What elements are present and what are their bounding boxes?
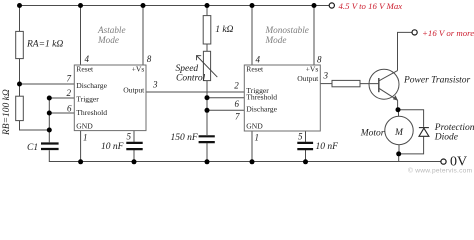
junction top rail / 1k branch	[205, 3, 210, 8]
junction rail / 10nF-1	[132, 159, 137, 164]
svg-text:Speed: Speed	[176, 64, 199, 74]
motor M1	[385, 116, 413, 144]
svg-text:5: 5	[298, 132, 303, 142]
svg-text:5: 5	[127, 132, 132, 142]
wire RA to RB	[19, 59, 21, 97]
svg-text:+16 V or more: +16 V or more	[422, 28, 474, 38]
svg-text:10 nF: 10 nF	[316, 142, 339, 152]
svg-text:Astable: Astable	[97, 25, 126, 35]
svg-text:150 nF: 150 nF	[171, 133, 198, 143]
wire top rail	[19, 5, 329, 7]
svg-text:+Vs: +Vs	[132, 65, 145, 74]
wire IC1 pin8	[142, 6, 144, 66]
IC U1 555 timer (astable) body	[74, 65, 146, 131]
wire IC1 pin5	[133, 131, 135, 142]
svg-text:Motor: Motor	[360, 129, 385, 139]
svg-text:Output: Output	[123, 85, 145, 94]
transistor Q1 power transistor (NPN)	[369, 69, 399, 100]
svg-text:1 kΩ: 1 kΩ	[215, 25, 233, 35]
svg-text:Monostable: Monostable	[265, 25, 309, 35]
svg-text:Threshold: Threshold	[246, 93, 277, 102]
junction emitter node	[396, 107, 401, 112]
svg-text:1: 1	[255, 133, 260, 143]
junction rail / 10nF-2	[303, 159, 308, 164]
svg-text:8: 8	[317, 55, 322, 65]
junction top rail / RA branch	[17, 3, 22, 8]
terminal 0V	[441, 159, 446, 164]
wire IC2 pin7	[207, 109, 244, 111]
junction rail / IC2 pin 1	[250, 159, 255, 164]
terminal +16V	[412, 30, 417, 35]
wire IC2 pin8	[313, 6, 315, 66]
wire cap10nF-1 to rail	[133, 150, 135, 162]
wire C1 top	[48, 130, 50, 142]
junction top rail / IC1 pin 8	[141, 3, 146, 8]
svg-text:C1: C1	[27, 143, 38, 153]
svg-text:7: 7	[67, 74, 72, 84]
svg-text:6: 6	[67, 104, 72, 114]
capacitor C1	[41, 144, 59, 150]
wire IC1 pin4	[80, 6, 82, 66]
svg-text:10 nF: 10 nF	[101, 142, 124, 152]
wire cap10nF-2 to rail	[305, 150, 307, 162]
IC U2 555 timer (monostable) body	[244, 65, 320, 131]
svg-text:2: 2	[234, 81, 239, 91]
junction RA-RB / IC1 discharge	[17, 82, 22, 87]
wire collector up	[398, 32, 412, 70]
svg-text:RB=100 kΩ: RB=100 kΩ	[2, 89, 12, 136]
wire motor bottom	[398, 145, 400, 154]
svg-text:RA=1 kΩ: RA=1 kΩ	[26, 40, 63, 50]
svg-text:3: 3	[323, 71, 329, 81]
svg-text:Reset: Reset	[246, 65, 264, 74]
svg-text:GND: GND	[76, 121, 93, 130]
resistor RB	[16, 96, 24, 120]
junction RB bottom / C1 top	[47, 128, 52, 133]
svg-text:7: 7	[235, 112, 240, 122]
potentiometer speed control	[203, 51, 210, 80]
wire IC2 pin1	[251, 131, 253, 162]
wire motor node to rail	[398, 154, 400, 162]
junction pot / IC2 threshold	[205, 95, 210, 100]
svg-text:Power Transistor: Power Transistor	[403, 76, 471, 86]
wire diode bottom	[399, 137, 424, 154]
svg-text:4: 4	[85, 54, 90, 64]
wire 1k top	[206, 6, 208, 16]
capacitor 10nF IC1	[126, 143, 142, 149]
svg-text:4: 4	[256, 55, 261, 65]
wire IC1 pin1	[80, 131, 82, 162]
svg-text:Reset: Reset	[76, 65, 94, 74]
svg-text:Threshold: Threshold	[76, 108, 107, 117]
junction top rail / IC1 pin 4	[78, 3, 83, 8]
wire emitter down to node	[397, 100, 399, 110]
wire cap150nF to rail	[206, 143, 208, 161]
junction IC1 threshold	[47, 111, 52, 116]
wire pin6 IC1	[49, 112, 74, 114]
svg-text:Diode: Diode	[434, 132, 458, 142]
junction motor bottom / diode	[396, 151, 401, 156]
junction rail / IC1 pin 1	[78, 159, 83, 164]
svg-text:GND: GND	[246, 121, 263, 130]
svg-text:© www.petervis.com: © www.petervis.com	[408, 167, 473, 175]
wire IC2 pin5	[305, 131, 307, 142]
wire base	[360, 83, 379, 85]
svg-text:4.5 V to 16 V Max: 4.5 V to 16 V Max	[339, 1, 403, 11]
wire pin2 IC1	[49, 97, 74, 99]
wire IC2 output	[320, 83, 332, 85]
wire trig-thresh vertical	[48, 98, 50, 130]
junction IC1 trigger	[47, 96, 52, 101]
svg-text:+Vs: +Vs	[306, 65, 319, 74]
svg-text:Trigger: Trigger	[76, 95, 99, 104]
terminal +V top	[329, 3, 334, 8]
svg-text:1: 1	[83, 133, 88, 143]
wire IC1 output to IC2 trigger	[146, 91, 244, 93]
junction top rail / IC2 pin 8	[312, 3, 317, 8]
pot wiper arrow	[197, 56, 218, 78]
svg-text:Discharge: Discharge	[76, 81, 107, 90]
capacitor 10nF IC2	[297, 143, 313, 149]
svg-text:Control: Control	[176, 74, 206, 84]
junction pot / IC2 discharge	[205, 108, 210, 113]
wire IC2 pin4	[251, 6, 253, 66]
resistor base (IC2 output to Q1 base)	[332, 80, 360, 86]
diode D1	[419, 128, 429, 137]
svg-text:Discharge: Discharge	[246, 105, 277, 114]
wire left branch vertical	[19, 6, 21, 32]
wire RB bottom corner	[20, 121, 50, 130]
svg-text:3: 3	[152, 80, 158, 90]
resistor 1k	[203, 16, 211, 44]
svg-text:2: 2	[67, 88, 72, 98]
junction top rail / IC2 pin 4	[250, 3, 255, 8]
svg-text:Mode: Mode	[97, 35, 119, 45]
wire IC2 pin6	[207, 97, 244, 99]
svg-text:8: 8	[147, 54, 152, 64]
capacitor 150nF	[199, 136, 215, 142]
svg-text:M: M	[394, 128, 404, 138]
wire C1 bottom to rail	[49, 150, 441, 161]
wire node to diode top	[398, 110, 424, 127]
resistor RA	[16, 31, 24, 58]
svg-text:6: 6	[235, 99, 240, 109]
wire node to motor	[398, 110, 400, 117]
wire pin7 IC1	[20, 83, 75, 85]
wire pot down	[206, 81, 208, 135]
svg-text:Output: Output	[297, 74, 319, 83]
wire 1k to pot	[206, 44, 208, 51]
svg-text:Mode: Mode	[265, 35, 287, 45]
junction rail / 150nF	[205, 159, 210, 164]
